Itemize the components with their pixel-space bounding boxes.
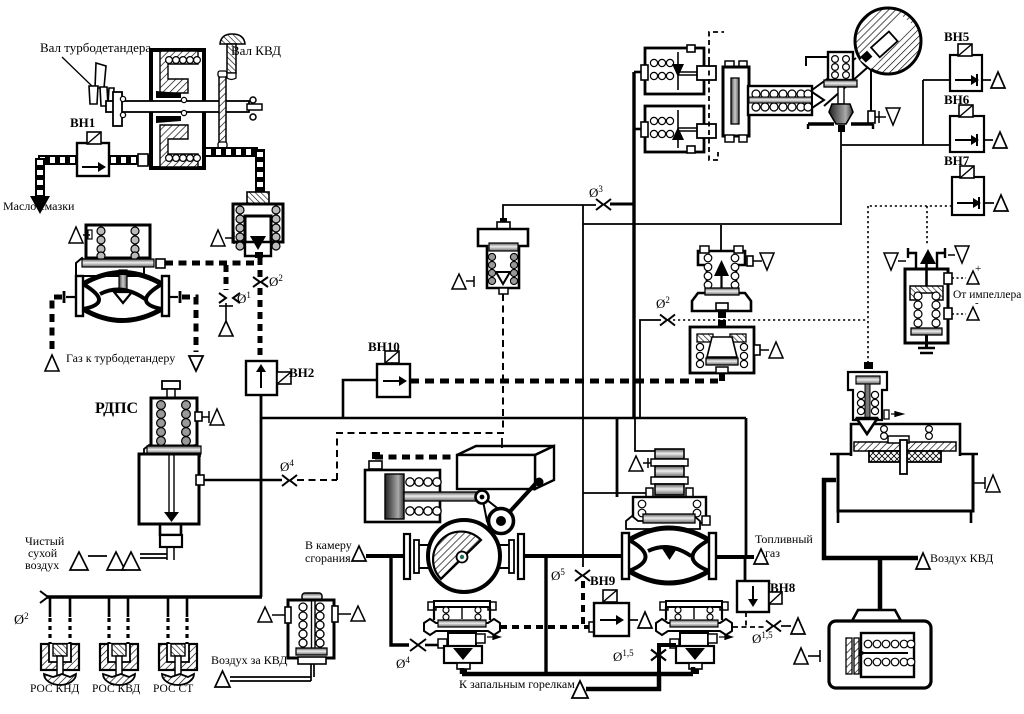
- flag right of 19a: [747, 253, 774, 270]
- connection triangle ignition: [572, 681, 588, 698]
- piston actuator box: [365, 470, 480, 522]
- ignition pressure regulator left: [424, 601, 500, 674]
- valve X O2-right: [660, 315, 675, 326]
- wire: RDPS to line y480: [204, 479, 282, 481]
- flag left of regulator R-top: [211, 230, 234, 246]
- wire: lower branch to open triangle: [586, 674, 659, 689]
- KVD shaft column: [218, 71, 227, 148]
- ignition pressure regulator right: [656, 601, 732, 674]
- flag left of impeller unit: [884, 253, 906, 270]
- valve X O15-bh8: [766, 621, 781, 632]
- flag right of 19b: [754, 342, 783, 358]
- svg-text:ВН9: ВН9: [590, 573, 616, 588]
- svg-text:Вал турбодетандера: Вал турбодетандера: [40, 40, 151, 55]
- flag top-left of valve V1: [69, 227, 90, 243]
- servo spring housing: [748, 86, 824, 115]
- vent with triangle below X O1: [219, 303, 233, 336]
- svg-text:ВН8: ВН8: [770, 580, 796, 595]
- valve BH6: [950, 105, 1007, 152]
- air KVD inlet triangle and double line: [215, 663, 314, 687]
- wire: vessel to air KVD and tank: [824, 480, 918, 612]
- servo actuator slide: [723, 61, 749, 142]
- wire: X O2-right and line from y418: [640, 320, 661, 418]
- flag right of РДПС: [202, 409, 224, 425]
- svg-text:РДПС: РДПС: [95, 400, 138, 417]
- svg-text:воздух: воздух: [25, 558, 59, 572]
- fuel valve spring chamber: [626, 497, 710, 529]
- solenoid block 2: [641, 106, 716, 153]
- valve BH7: [952, 166, 1008, 215]
- oil drain arrow: [30, 196, 50, 214]
- wire: y225 long thin line: [583, 205, 841, 567]
- wire: BH10 input from y418: [343, 380, 377, 418]
- fuel valve stem: [661, 547, 678, 560]
- svg-text:сгорания: сгорания: [305, 551, 351, 565]
- svg-text:ВН2: ВН2: [289, 365, 314, 380]
- flag right-top of impeller unit: [948, 246, 969, 263]
- turboexpander impeller blades: [89, 63, 122, 108]
- port and flag right of poppet assembly: [868, 108, 900, 125]
- wires: six drops to POC units: [50, 597, 187, 645]
- wire: dotted minus port: [952, 297, 979, 320]
- regulator R-top (above BH2 line): [233, 192, 283, 258]
- svg-text:ВН5: ВН5: [944, 29, 970, 44]
- svg-text:Газ к турбодетандеру: Газ к турбодетандеру: [66, 351, 175, 365]
- wire: valve V1 right port dashed down to arrow: [169, 291, 196, 352]
- valve X O2: [253, 277, 268, 287]
- wire: vertical x261 BH2 down to y597: [260, 395, 263, 597]
- РДПС diaphragm: [144, 445, 201, 456]
- valve X O4-left: [282, 475, 297, 486]
- flag right of vessel: [973, 475, 1000, 492]
- РДПС lower body: [139, 454, 204, 560]
- coupling between 19a and 19b: [718, 312, 726, 326]
- svg-text:Топливный: Топливный: [755, 532, 813, 546]
- wire: branch x391 down to X O4: [391, 558, 409, 645]
- flag left of pilot regulator: [452, 274, 474, 289]
- fuel valve enclosure box: [617, 418, 746, 581]
- turboexpander shaft: [106, 91, 262, 126]
- hose housing right down to regulator: [205, 149, 260, 192]
- svg-text:ВН1: ВН1: [70, 115, 95, 130]
- wire: pipe butterfly to fuel valve: [524, 554, 624, 558]
- bolt Вал КВД: [220, 34, 245, 80]
- wire: regulator R-top bottom to X O2 to BH2: [258, 258, 263, 360]
- wire: dotted BH7 input net: [673, 206, 952, 363]
- valve X O15-right-reg: [651, 650, 666, 661]
- regulator 19b: [690, 327, 754, 381]
- svg-text:В камеру: В камеру: [305, 538, 352, 552]
- valve BH8: [737, 581, 782, 612]
- svg-text:К запальным горелкам: К запальным горелкам: [459, 677, 575, 691]
- wire: thick dashed to piston box: [369, 452, 457, 469]
- wire: ignition burner main line y674: [462, 667, 693, 674]
- valve BH1: [77, 132, 109, 176]
- arrow outline down: [189, 356, 203, 371]
- valve X O1: [219, 293, 240, 303]
- valve X BH9: [575, 570, 590, 581]
- valve BH2: [246, 361, 291, 395]
- connection triangle gas-to-turbo: [45, 355, 59, 371]
- wire: thin y205 from regulator 503 to X O3: [503, 204, 634, 226]
- wire: branch x721 down to regulator stack: [720, 225, 722, 251]
- air inlet triangles: [70, 552, 167, 570]
- svg-text:РОС КВД: РОС КВД: [92, 683, 140, 695]
- pilot regulator 503: [478, 218, 528, 294]
- combustion chamber 3D box: [457, 438, 554, 489]
- POC KND unit: [41, 644, 79, 685]
- hose oil left: [38, 158, 77, 198]
- regulator 19a: [692, 246, 751, 311]
- hose BH1 to housing: [109, 154, 151, 166]
- wire: block1 and block2 feeds from x634: [634, 72, 645, 129]
- valve BH5: [950, 44, 1005, 91]
- connection triangle Воздух КВД: [916, 553, 930, 569]
- wire: BH8 dashed net with X O15: [733, 612, 766, 627]
- valve X O4-ign: [410, 639, 426, 651]
- wire: dotted down to vessel pilot: [864, 362, 873, 369]
- wire: branch with X O15 from regulator-right port: [659, 645, 676, 674]
- crank linkage: [474, 478, 544, 548]
- turbine housing: [151, 50, 204, 168]
- wire: dashed regulator-left to BH9 valve y627: [500, 625, 592, 629]
- РДПС top cap: [162, 381, 180, 399]
- wire: to triangle: [781, 625, 791, 627]
- lever frame to disc: [806, 57, 871, 112]
- control valve V1 actuator: [76, 225, 165, 276]
- wire: branch down to vent X1: [224, 265, 229, 290]
- air vessel: [830, 419, 978, 523]
- wire: diaphragm right port dashed to BH2 net: [165, 261, 258, 266]
- poppet pilot block: [808, 52, 873, 132]
- POC KVD unit: [100, 644, 138, 685]
- fuel valve actuator cylinders: [646, 449, 693, 497]
- fuel valve globe body: [622, 528, 716, 583]
- vessel pilot regulator: [848, 372, 903, 432]
- solenoid block 1: [641, 45, 716, 94]
- wire: x583 tee to fuel valve actuator port: [583, 492, 650, 494]
- flag left of fuel actuator: [629, 456, 651, 471]
- valve V1 globe body: [76, 273, 169, 321]
- governor disc: [855, 8, 921, 74]
- wire: poppet out down and to BH5 BH6: [842, 80, 950, 145]
- svg-text:газ: газ: [765, 546, 780, 560]
- wire: dashed feedback loop: [709, 32, 724, 160]
- flag left of pressure switch: [258, 607, 285, 622]
- wire: branch x841 up to poppet assembly: [840, 131, 842, 225]
- chevron at line start: [40, 591, 48, 603]
- valve V1 stem: [114, 270, 132, 303]
- valve BH10: [377, 351, 410, 397]
- valve X O3: [596, 199, 611, 210]
- connection triangle fuel gas: [754, 549, 768, 564]
- flag left of tank: [794, 648, 820, 664]
- flag right of pressure switch: [338, 606, 365, 621]
- wire: valve V1 left port dashed to gas triangle: [52, 291, 75, 350]
- label Вал турбодетандера: [40, 40, 151, 88]
- wire: dashed vertical from X BH9 down: [581, 581, 585, 627]
- wire: dotted plus port: [952, 263, 981, 284]
- svg-text:-: -: [975, 297, 979, 309]
- svg-text:+: +: [975, 263, 981, 275]
- wire: BH10 output thick dashed to right: [410, 379, 718, 384]
- wire: pipe into butterfly: [366, 554, 406, 558]
- svg-text:От импеллера: От импеллера: [953, 289, 1021, 301]
- svg-text:Вал КВД: Вал КВД: [231, 43, 281, 58]
- shutoff valve below BH9: [589, 590, 652, 636]
- svg-text:Воздух КВД: Воздух КВД: [930, 551, 993, 565]
- POC CT unit: [159, 644, 197, 685]
- wire: horizontal y597 РОС line: [47, 595, 262, 598]
- wire: supply into fuel actuator: [635, 418, 660, 451]
- wire: horizontal main y418: [260, 417, 746, 420]
- РДПС upper spring chamber: [151, 398, 202, 446]
- wire: dashed from X O4 up to regulator 503: [297, 293, 503, 480]
- inlet triangle combustion: [352, 546, 366, 561]
- pressure switch unit (left of В камеру): [285, 593, 338, 664]
- svg-text:Воздух за КВД: Воздух за КВД: [211, 653, 287, 667]
- wire: branch x546 down to ignition line: [544, 558, 547, 673]
- svg-text:Масло смазки: Масло смазки: [3, 199, 75, 213]
- wire: X O4 to regulator inlet: [425, 644, 438, 647]
- heat exchanger tank: [829, 610, 931, 688]
- svg-text:РОС СТ: РОС СТ: [153, 683, 193, 695]
- impeller sensor unit: [905, 248, 952, 353]
- svg-text:РОС КНД: РОС КНД: [30, 683, 80, 695]
- wire: thick vertical x634: [632, 72, 635, 418]
- wire: fuel gas pipe right: [716, 555, 754, 559]
- butterfly valve: [404, 520, 524, 592]
